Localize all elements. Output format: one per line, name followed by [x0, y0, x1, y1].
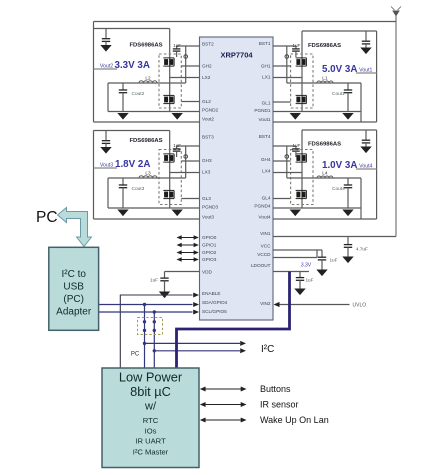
svg-text:RTC: RTC [143, 416, 159, 425]
wire thick 3.3V supply to microcontroller [177, 272, 290, 369]
node Vout2 terminal stub [94, 68, 118, 70]
capacitor CB2 1uF bootstrap [173, 46, 181, 57]
svg-text:GL2: GL2 [202, 99, 211, 104]
svg-text:1uF: 1uF [150, 278, 158, 283]
ground PGND4 arrow [290, 210, 301, 217]
wire I2C SCL out to header [154, 348, 246, 353]
wire VDD [165, 271, 200, 273]
ground PGND2 arrow [172, 113, 183, 120]
svg-text:Cout3: Cout3 [132, 186, 145, 192]
wire BST3 vertical to switch node [185, 146, 187, 178]
svg-text:GH3: GH3 [202, 158, 212, 163]
svg-text:Vout3: Vout3 [100, 163, 113, 169]
inductor L1 [317, 81, 333, 83]
wire PC bent double arrow [58, 208, 92, 247]
wire output vertical (channel 4) [360, 178, 362, 219]
node junction SCL out [153, 349, 156, 352]
svg-text:Buttons: Buttons [260, 384, 291, 394]
svg-text:VCC: VCC [261, 244, 272, 249]
svg-text:Vout1: Vout1 [359, 68, 372, 74]
svg-text:GPIO1: GPIO1 [202, 243, 217, 248]
svg-text:IR UART: IR UART [135, 437, 166, 446]
ground PGND1 arrow [290, 113, 301, 120]
node junction SDA [143, 303, 146, 306]
svg-text:GH1: GH1 [261, 64, 271, 69]
svg-text:Cout1: Cout1 [332, 91, 345, 97]
wire VIN branch rail top edge (channel 3) [94, 130, 170, 132]
svg-text:1uF: 1uF [173, 143, 181, 148]
transistor Q2A high-side [163, 58, 174, 66]
wire PGND4 power ground return [273, 207, 361, 209]
wire output vertical (channel 3) [107, 178, 109, 208]
svg-text:5.0V 3A: 5.0V 3A [322, 64, 357, 75]
wire output-side vertical rail (channel 3) [93, 131, 95, 220]
wire GPIO2 bidirectional arrow [177, 250, 199, 254]
wire output vertical (channel 2) [107, 83, 109, 112]
svg-text:GPIO0: GPIO0 [202, 235, 217, 240]
wire BST1 from chip [273, 45, 296, 47]
svg-text:1uF: 1uF [293, 43, 301, 48]
svg-text:L1: L1 [322, 76, 328, 82]
node Vout3 terminal stub [94, 167, 118, 169]
wire SCL bus [99, 310, 199, 315]
wire LX4 switch node [273, 172, 302, 174]
svg-text:LX4: LX4 [262, 169, 271, 174]
wire drain feed into FET pair (channel 3) [169, 131, 171, 209]
ground below Cout2 [117, 113, 128, 120]
svg-text:PGND2: PGND2 [202, 108, 219, 113]
wire SDA bus [99, 302, 199, 307]
wire LX2 switch node [170, 77, 200, 79]
transistor Q4B low-side [296, 190, 307, 198]
transistor Q3B low-side [163, 190, 174, 198]
svg-text:3.3V: 3.3V [301, 263, 312, 269]
wire BST4 vertical to switch node [286, 146, 288, 178]
svg-text:BST4: BST4 [259, 134, 271, 139]
wire PGND2 power ground return [108, 111, 200, 113]
wire BST2 from chip [177, 45, 200, 47]
wire GH4 gate drive high [273, 160, 291, 162]
svg-text:3.3V 3A: 3.3V 3A [115, 60, 150, 71]
wire drain feed into FET pair (channel 4) [301, 130, 303, 208]
wire output node (channel 1) [287, 82, 361, 84]
wire UVLO into VIN2 [274, 302, 350, 307]
U1 pin labels right column [251, 41, 271, 306]
svg-text:1uF: 1uF [293, 143, 301, 148]
resistor RP1 body [143, 320, 146, 332]
capacitor C-VCC 1uF [318, 250, 326, 270]
svg-text:4.7uF: 4.7uF [356, 247, 368, 252]
wire Wake Up On Lan double arrow [200, 418, 247, 423]
svg-text:VIN2: VIN2 [260, 301, 271, 306]
svg-text:Vout1: Vout1 [259, 117, 271, 122]
svg-text:USB: USB [63, 282, 84, 293]
op-amp U1 XRP7704 PMIC body [200, 37, 274, 320]
svg-text:BST1: BST1 [259, 41, 271, 46]
transistor Q3A high-side [163, 154, 174, 162]
svg-text:I²C to: I²C to [61, 269, 86, 280]
svg-text:Vout4: Vout4 [259, 215, 271, 220]
capacitor C-VDD 1uF [160, 272, 168, 292]
svg-text:PC: PC [36, 209, 58, 226]
svg-text:ENABLE: ENABLE [202, 291, 221, 296]
svg-text:VIN1: VIN1 [260, 231, 271, 236]
wire GPIO0 bidirectional arrow [177, 235, 199, 239]
resistor RP1 RP2 pull-up pack dashed box [138, 318, 163, 335]
svg-text:GL1: GL1 [262, 101, 271, 106]
transistor pair Q1 FDS6986AS dashed outline [291, 54, 313, 108]
wire LDOOUT [273, 271, 309, 273]
ground below Cin4 [360, 147, 371, 154]
wire BST4 from chip [273, 145, 296, 147]
svg-text:LDOOUT: LDOOUT [251, 263, 271, 268]
capacitor Cin4 input bypass [362, 130, 370, 147]
wire GH1 gate drive high [273, 65, 291, 67]
transistor pair Q2 FDS6986AS dashed outline [159, 54, 181, 108]
wire output-side vertical rail (channel 2) [93, 22, 95, 123]
svg-text:Vout4: Vout4 [359, 164, 372, 170]
node Vout1 terminal stub [356, 72, 377, 74]
wire GPIO3 bidirectional arrow [177, 257, 199, 261]
svg-text:GL3: GL3 [202, 196, 211, 201]
ground below Cout4 [342, 210, 353, 217]
wire BST3 from chip [177, 145, 200, 147]
svg-text:I²C: I²C [261, 344, 274, 355]
svg-text:FDS6986AS: FDS6986AS [308, 142, 341, 148]
wire LX3 switch node [170, 172, 200, 174]
wire BST1 vertical to switch node [286, 46, 288, 83]
ground below C-VIN [342, 257, 353, 264]
svg-text:L4: L4 [322, 171, 328, 177]
svg-text:Low Power: Low Power [119, 370, 183, 385]
wire BST2 vertical to switch node [185, 46, 187, 83]
wire I2C SDA out to header [145, 341, 247, 346]
wire GH3 gate drive high [181, 160, 199, 162]
svg-text:(PC): (PC) [63, 294, 84, 305]
svg-text:UVLO: UVLO [353, 303, 367, 309]
svg-text:GH2: GH2 [202, 64, 212, 69]
transistor Q1B low-side [296, 95, 307, 103]
wire VIN1 from right rail to chip [273, 236, 396, 238]
node junction on BST4 line [285, 155, 289, 159]
wire drain feed into FET pair (channel 2) [169, 29, 171, 112]
svg-text:BST2: BST2 [202, 42, 214, 47]
wire Vout1 sense to chip [273, 121, 377, 123]
capacitor CB3 1uF bootstrap [173, 146, 181, 157]
inductor L4 [317, 176, 333, 178]
wire right input rail down to VIN1 [395, 22, 397, 237]
capacitor C-VIN 4.7uF input [344, 237, 352, 257]
capacitor Cout2 [119, 83, 127, 112]
svg-text:L3: L3 [145, 171, 151, 177]
ground below C-LDO [294, 289, 305, 296]
node Vout4 terminal stub [356, 168, 377, 170]
ground below Cin1 [360, 48, 371, 55]
svg-text:SDA/GPIO4: SDA/GPIO4 [202, 300, 228, 305]
transistor pair Q3 FDS6986AS dashed outline [159, 150, 181, 205]
svg-text:PGND3: PGND3 [202, 205, 219, 210]
svg-text:GPIO2: GPIO2 [202, 250, 217, 255]
capacitor CB4 1uF bootstrap [292, 146, 300, 157]
wire Buttons double arrow [200, 387, 247, 392]
svg-text:FDS6986AS: FDS6986AS [129, 43, 162, 49]
node junction SDA out [143, 342, 146, 345]
svg-text:LX1: LX1 [262, 75, 271, 80]
resistor RP2 body [153, 320, 156, 332]
U1 pin labels left column [202, 42, 228, 315]
ground below Cout1 [342, 113, 353, 120]
ground below Cout3 [117, 210, 128, 217]
transistor Q2B low-side [163, 95, 174, 103]
node junction on BST1 line [285, 55, 289, 59]
op-amp U2 I2C-to-USB adapter box [49, 247, 99, 330]
wire output node (channel 2) [108, 82, 186, 84]
svg-text:8bit µC: 8bit µC [130, 384, 171, 399]
wire IR sensor double arrow [200, 402, 247, 407]
capacitor Cout1 [344, 83, 352, 112]
capacitor Cout4 [344, 178, 352, 208]
ground below Cin3 [100, 147, 111, 154]
wire VCC [273, 249, 322, 251]
wire Vout4 sense to chip [273, 218, 377, 220]
svg-text:LX2: LX2 [202, 75, 211, 80]
wire SCL pull-up drop [153, 312, 155, 368]
wire Vout2 sense to chip [94, 121, 200, 123]
node junction on BST2 line [184, 55, 188, 59]
svg-text:w/: w/ [144, 401, 157, 413]
svg-text:1.0V 3A: 1.0V 3A [322, 160, 357, 171]
wire SDA pull-up drop [144, 305, 146, 369]
wire VIN branch rail top edge (channel 4) [302, 129, 377, 131]
wire GL3 gate drive low [181, 198, 199, 200]
svg-text:1.8V 2A: 1.8V 2A [115, 159, 150, 170]
svg-text:Cout2: Cout2 [132, 91, 145, 97]
svg-text:Vout2: Vout2 [202, 117, 214, 122]
wire output-side vertical rail (channel 4) [376, 130, 378, 219]
wire drain feed into FET pair (channel 1) [301, 31, 303, 112]
svg-text:Vout3: Vout3 [202, 215, 214, 220]
capacitor Cout3 [119, 178, 127, 208]
wire VIN branch rail top edge (channel 2) [94, 28, 170, 30]
svg-text:1uF: 1uF [306, 278, 314, 283]
node VIN supply symbol at top right [391, 7, 401, 22]
op-amp U3 low power 8bit microcontroller box [102, 368, 199, 468]
wire PGND3 power ground return [108, 207, 200, 209]
svg-text:PGND4: PGND4 [254, 204, 271, 209]
wire VCC-VCCD tie [316, 250, 318, 258]
svg-text:VCCD: VCCD [257, 252, 271, 257]
svg-text:XRP7704: XRP7704 [220, 51, 253, 60]
svg-text:FDS6986AS: FDS6986AS [308, 43, 341, 49]
svg-text:I²C Master: I²C Master [133, 448, 169, 457]
svg-text:GPIO3: GPIO3 [202, 257, 217, 262]
svg-text:GH4: GH4 [261, 157, 271, 162]
wire output node (channel 4) [287, 177, 361, 179]
wire output vertical (channel 1) [360, 83, 362, 122]
capacitor Cin1 input bypass [362, 31, 370, 48]
transistor Q4A high-side [296, 154, 307, 162]
svg-text:IOs: IOs [145, 427, 157, 436]
wire VCCD [273, 257, 317, 259]
svg-text:Vout2: Vout2 [100, 64, 113, 70]
wire GL4 gate drive low [273, 198, 291, 200]
ground below Cin2 [100, 45, 111, 52]
svg-text:VDD: VDD [202, 270, 213, 275]
inductor L3 [139, 176, 157, 178]
svg-text:1uF: 1uF [330, 258, 338, 263]
capacitor CB1 1uF bootstrap [292, 46, 300, 57]
wire output node (channel 3) [108, 177, 186, 179]
transistor pair Q4 FDS6986AS dashed outline [291, 150, 313, 205]
capacitor Cin2 input bypass [102, 29, 110, 46]
capacitor Cin3 input bypass [102, 131, 110, 148]
svg-text:1uF: 1uF [173, 43, 181, 48]
svg-text:PC: PC [131, 352, 140, 358]
wire GPIO1 bidirectional arrow [177, 243, 199, 247]
transistor Q1A high-side [296, 58, 307, 66]
wire GL2 gate drive low [181, 101, 199, 103]
svg-text:Adapter: Adapter [56, 307, 92, 318]
svg-text:FDS6986AS: FDS6986AS [129, 138, 162, 144]
wire top 12V input rail [94, 21, 397, 23]
node junction SCL [153, 310, 156, 313]
svg-text:BST3: BST3 [202, 135, 214, 140]
wire PGND1 power ground return [273, 111, 361, 113]
ground below C-VCC [316, 270, 327, 277]
inductor L2 [139, 81, 157, 83]
wire GL1 gate drive low [273, 101, 291, 103]
wire ENABLE from microcontroller [120, 293, 199, 369]
wire output-side vertical rail (channel 1) [376, 31, 378, 122]
wire GH2 gate drive high [181, 65, 199, 67]
capacitor C-LDO 1uF [296, 272, 304, 289]
wire Vout3 sense to chip [94, 218, 200, 220]
ground below C-VDD [159, 292, 170, 299]
svg-text:PGND1: PGND1 [254, 108, 271, 113]
svg-text:SCL/GPIO5: SCL/GPIO5 [202, 309, 227, 314]
wire LX1 switch node [273, 77, 302, 79]
svg-text:LX3: LX3 [202, 170, 211, 175]
wire VIN branch rail top edge (channel 1) [302, 30, 377, 32]
svg-text:GL4: GL4 [262, 196, 271, 201]
svg-text:L2: L2 [145, 76, 151, 82]
ground PGND3 arrow [172, 210, 183, 217]
svg-text:Cout4: Cout4 [332, 186, 345, 192]
svg-text:IR sensor: IR sensor [260, 400, 299, 410]
svg-text:Wake Up On Lan: Wake Up On Lan [260, 415, 329, 425]
node junction on BST3 line [184, 155, 188, 159]
